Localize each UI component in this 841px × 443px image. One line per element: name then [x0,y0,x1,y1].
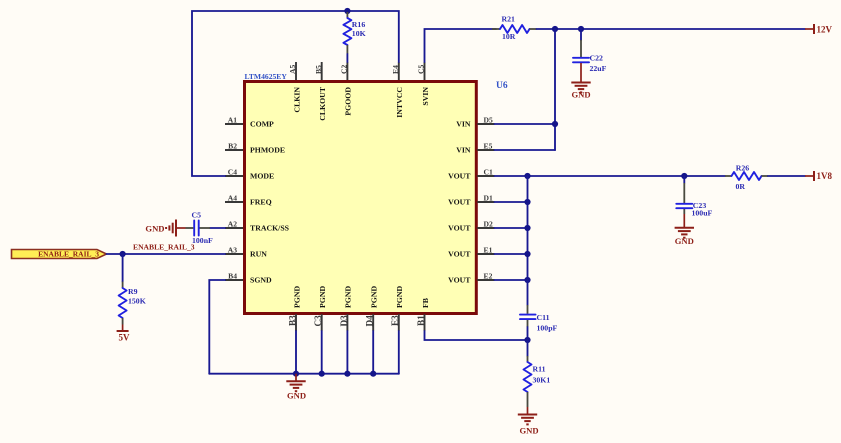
svg-text:D2: D2 [484,220,493,229]
svg-text:E3: E3 [390,315,400,326]
svg-text:12V: 12V [817,25,833,35]
junction bus x=373 [370,371,376,377]
capacitor C5 [186,211,214,246]
resistor R26 [725,164,768,192]
svg-text:10K: 10K [352,29,366,38]
pin A2 TRACK/SS (left) [225,220,289,233]
svg-text:PGOOD: PGOOD [344,87,353,116]
svg-text:B1: B1 [416,315,426,326]
wire PGND pin x=373 [372,331,374,374]
ground port left of C5 [145,220,185,237]
junction bus x=347 [344,371,350,377]
junction bus x=296 [293,371,299,377]
svg-text:R16: R16 [352,20,366,29]
junction bus x=322 [319,371,325,377]
svg-text:VOUT: VOUT [448,172,471,181]
wire VOUT row y=280 [495,279,528,281]
svg-text:PGND: PGND [344,286,353,308]
pin E3 PGND (bottom) [390,286,404,331]
svg-text:E4: E4 [391,65,400,74]
svg-text:CLKOUT: CLKOUT [318,86,327,121]
svg-text:D1: D1 [484,194,493,203]
svg-text:C5: C5 [192,211,202,220]
junction C22 [578,26,584,32]
svg-text:C22: C22 [590,54,604,63]
svg-text:R21: R21 [502,15,516,24]
svg-text:PGND: PGND [292,286,301,308]
junction [524,277,530,283]
svg-text:0R: 0R [736,182,746,191]
svg-text:FB: FB [421,298,430,308]
svg-text:CLKIN: CLKIN [292,87,301,113]
svg-text:PGND: PGND [395,286,404,308]
pin E4 INTVCC (top) [391,62,404,118]
wire ENABLE_RAIL_3 to RUN [107,253,226,255]
svg-text:C4: C4 [228,168,237,177]
wire FB to C11/R11 node [425,331,528,340]
wire SVIN up to rail [425,29,497,62]
svg-text:E2: E2 [484,272,493,281]
wire VOUT C1 rail [495,175,726,177]
wire TRACK/SS to C5 [210,227,225,229]
wire R26 to port [768,175,805,177]
pin B4 SGND (left) [225,272,272,285]
wire R16 to PGOOD pin [346,54,348,62]
resistor R9 [119,254,146,325]
resistor R21 [492,15,537,42]
svg-text:E1: E1 [484,246,493,255]
pin D5 VIN (right) [456,116,494,129]
junction at R16 top [344,8,350,14]
pin D3 PGND (bottom) [339,286,353,331]
pin A3 RUN (left) [225,246,267,259]
pin A1 COMP (left) [225,116,274,129]
pin D2 VOUT (right) [448,220,494,233]
svg-text:VOUT: VOUT [448,250,471,259]
pin D4 PGND (bottom) [365,286,379,331]
power port 1V8 [805,171,832,181]
wire VIN E5 [495,149,556,151]
wire VIN vertical [554,29,556,150]
svg-text:A5: A5 [288,65,297,74]
svg-text:1V8: 1V8 [817,171,833,181]
pin B1 FB (bottom) [416,298,430,331]
svg-text:TRACK/SS: TRACK/SS [250,224,289,233]
svg-text:C1: C1 [484,168,493,177]
svg-text:100uF: 100uF [692,209,713,218]
port ENABLE_RAIL_3 [12,250,107,259]
svg-text:22uF: 22uF [590,64,607,73]
pin A5 CLKIN (top) [288,62,301,113]
wire VOUT row y=254 [495,253,528,255]
pin C1 VOUT (right) [448,168,494,181]
wire MODE to INTVCC via top rail [192,11,399,176]
svg-text:GND: GND [571,90,590,100]
wire PGND pin x=399 [398,331,400,374]
junction VOUT vertical [524,173,530,179]
svg-text:D3: D3 [339,315,349,327]
junction C23 [681,173,687,179]
svg-text:VOUT: VOUT [448,276,471,285]
svg-text:MODE: MODE [250,172,274,181]
capacitor C23 [676,176,712,218]
svg-text:R11: R11 [533,365,546,374]
junction VIN D5 [552,121,558,127]
resistor R11 [524,340,551,407]
wire PGND bus [209,373,398,375]
svg-text:5V: 5V [119,333,131,343]
wire SGND to bus [209,280,225,374]
IC U6 LTM4625EY body [245,72,508,314]
wire PGND pin x=347 [346,331,348,374]
pin C2 PGOOD (top) [340,62,353,116]
svg-text:A1: A1 [228,116,237,125]
pin C4 MODE (left) [225,168,274,181]
junction R9 [120,251,126,257]
pin E1 VOUT (right) [448,246,494,259]
svg-text:E5: E5 [484,142,493,151]
svg-text:A3: A3 [228,246,237,255]
junction [524,251,530,257]
svg-text:VOUT: VOUT [448,224,471,233]
pin B5 CLKOUT (top) [314,62,327,121]
ground below C22 [571,63,590,100]
svg-text:B5: B5 [314,65,323,74]
wire VOUT vertical [527,176,529,280]
ground below bus [286,374,306,401]
svg-text:C5: C5 [417,65,426,74]
svg-text:PGND: PGND [370,286,379,308]
svg-text:U6: U6 [496,81,508,91]
svg-text:FREQ: FREQ [250,198,272,207]
svg-text:VIN: VIN [456,120,471,129]
wire PGND pin x=296 [295,331,297,374]
svg-text:D5: D5 [484,116,493,125]
svg-text:100nF: 100nF [192,236,213,245]
svg-text:PGND: PGND [318,286,327,308]
svg-text:ENABLE_RAIL_3: ENABLE_RAIL_3 [133,243,195,252]
pin D1 VOUT (right) [448,194,494,207]
pin B3 PGND (bottom) [287,286,301,331]
svg-text:A2: A2 [228,220,237,229]
pin C5 SVIN (top) [417,62,430,106]
power port 12V [805,24,833,35]
wire VIN D5 [495,123,556,125]
svg-text:GND: GND [519,426,538,436]
svg-text:RUN: RUN [250,250,267,259]
wire PGND pin x=322 [321,331,323,374]
svg-text:R9: R9 [128,287,138,296]
pin B2 PHMODE (left) [225,142,285,155]
svg-text:C3: C3 [313,315,323,327]
pin E2 VOUT (right) [448,272,494,285]
svg-text:GND: GND [145,224,164,234]
svg-text:SVIN: SVIN [421,87,430,106]
wire VOUT row y=202 [495,201,528,203]
svg-text:10R: 10R [502,32,516,41]
junction [524,225,530,231]
svg-text:LTM4625EY: LTM4625EY [245,72,288,81]
svg-text:B2: B2 [228,142,237,151]
pin E5 VIN (right) [456,142,494,155]
svg-text:PHMODE: PHMODE [250,146,285,155]
svg-text:C2: C2 [340,65,349,74]
svg-text:A4: A4 [228,194,237,203]
svg-text:B3: B3 [287,315,297,326]
wire 12V rail [537,28,806,30]
svg-text:100pF: 100pF [537,324,558,333]
svg-text:VOUT: VOUT [448,198,471,207]
svg-text:GND: GND [287,391,306,401]
svg-text:COMP: COMP [250,120,274,129]
svg-text:B4: B4 [228,272,237,281]
svg-text:SGND: SGND [250,276,272,285]
resistor R16 [343,12,365,54]
svg-text:C11: C11 [537,313,550,322]
ground below R11 [518,407,539,436]
svg-text:R26: R26 [736,164,750,173]
svg-text:INTVCC: INTVCC [395,87,404,118]
svg-text:150K: 150K [128,297,146,306]
junction [524,199,530,205]
capacitor C11 [520,280,558,340]
junction FB node [524,337,530,343]
ground below C23 [675,209,694,246]
svg-text:D4: D4 [365,315,375,327]
pin C3 PGND (bottom) [313,286,327,331]
pin A4 FREQ (left) [225,194,272,207]
svg-text:VIN: VIN [456,146,471,155]
svg-text:30K1: 30K1 [533,376,551,385]
wire VOUT row y=228 [495,227,528,229]
power port 5V [117,325,130,343]
capacitor C22 [573,29,607,73]
junction VIN drop [552,26,558,32]
svg-text:ENABLE_RAIL_3: ENABLE_RAIL_3 [38,250,99,259]
svg-text:GND: GND [675,236,694,246]
